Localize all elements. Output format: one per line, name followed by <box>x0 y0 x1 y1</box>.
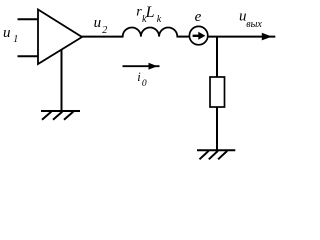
svg-text:вых: вых <box>246 19 262 30</box>
svg-text:k: k <box>157 14 162 25</box>
svg-text:u: u <box>94 15 102 31</box>
svg-text:2: 2 <box>102 25 107 36</box>
svg-text:L: L <box>145 4 155 21</box>
svg-text:i: i <box>137 70 141 84</box>
svg-text:1: 1 <box>13 34 18 45</box>
svg-text:0: 0 <box>142 79 147 89</box>
svg-text:e: e <box>195 9 202 25</box>
svg-text:u: u <box>3 25 11 41</box>
